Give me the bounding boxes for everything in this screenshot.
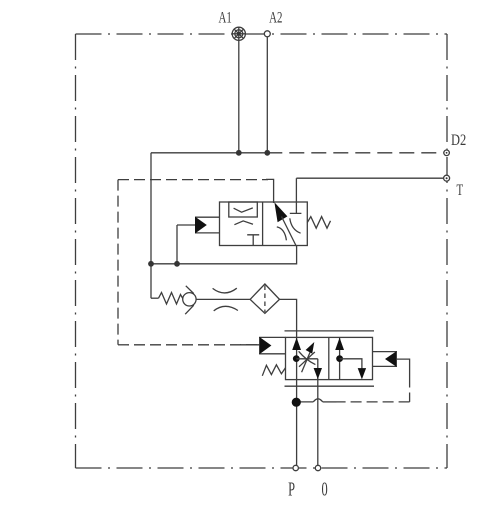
port A1	[232, 27, 245, 40]
label 0	[322, 478, 328, 501]
node junction A2 line	[264, 150, 270, 156]
down path left cell	[317, 359, 319, 468]
port 0	[315, 465, 320, 470]
check ball circle	[183, 293, 196, 306]
wire T line	[296, 177, 444, 179]
pilot arrow right V2	[385, 351, 397, 367]
svg-text:A2: A2	[269, 9, 282, 27]
valve V2 body	[286, 337, 373, 379]
valve V2 top rail	[285, 330, 375, 332]
spring V2 lower-left	[262, 365, 285, 376]
up path right cell	[339, 338, 341, 380]
plug T symbol	[247, 235, 259, 246]
pilot rails left V2	[259, 337, 285, 353]
svg-text:0: 0	[322, 478, 328, 500]
node dot right cell	[336, 355, 343, 362]
wire A2 vertical	[266, 34, 268, 153]
flow curve left	[277, 227, 287, 240]
pilot line left vertical (dashed)	[117, 180, 119, 345]
node big junction	[292, 398, 301, 407]
variable arrowhead	[306, 342, 315, 354]
check rails left	[195, 217, 220, 233]
restrictor arc a	[299, 351, 316, 364]
restrictor cross line	[296, 358, 318, 360]
port T	[444, 175, 450, 181]
node junction main	[148, 261, 154, 267]
variable arrow shaft	[302, 351, 311, 373]
svg-text:A1: A1	[219, 9, 232, 27]
pilot line bottom (dashed)	[118, 344, 259, 346]
filter dashed element	[264, 286, 266, 313]
pilot arrowhead U1	[274, 202, 287, 222]
pilot wire stub	[240, 344, 259, 346]
wire under valve U1	[151, 246, 297, 264]
wire top horizontal to junctions	[151, 152, 267, 154]
elbow right cell	[340, 359, 362, 369]
check valve arrow	[195, 217, 207, 234]
valve V2 divider	[328, 337, 330, 379]
pilot line upper (dashed)	[118, 179, 268, 181]
label A1	[219, 9, 232, 27]
crossover hump	[313, 399, 322, 402]
up arrowhead right cell	[335, 338, 344, 350]
orifice chevron lower	[234, 221, 253, 225]
spring relief	[159, 293, 183, 305]
node junction A1 line	[236, 150, 242, 156]
pilot wire right dashed	[409, 377, 411, 402]
wire A1 vertical	[238, 34, 240, 153]
T-stub in valve	[290, 202, 302, 213]
wire check feed	[177, 225, 195, 264]
down arrowhead right cell	[358, 368, 366, 379]
pilot wire bottom solid	[323, 401, 337, 403]
enclosure border (dash-dot)	[76, 34, 448, 468]
valve V2 bottom rail	[285, 385, 375, 387]
main P line through valve	[296, 337, 298, 468]
node dot left cell	[293, 355, 300, 362]
label A2	[269, 9, 282, 27]
restrictor arc b	[299, 352, 315, 367]
pilot arrow left V2	[259, 337, 271, 355]
label P	[288, 478, 295, 501]
valve U1 inner orifice box	[229, 202, 257, 217]
flow curve right	[290, 218, 301, 233]
pilot wire to node	[296, 401, 313, 403]
filter diamond	[250, 284, 279, 313]
orifice arc top	[213, 288, 237, 293]
up arrow left cell	[292, 338, 301, 350]
seat line lower	[185, 305, 194, 314]
pilot wire right solid	[397, 359, 410, 376]
spring U1 right	[307, 217, 330, 229]
svg-text:P: P	[288, 478, 295, 500]
valve U1 body	[220, 202, 308, 246]
pilot arrow shaft	[282, 217, 297, 247]
wire filter to valve V2	[280, 299, 297, 337]
wire ball to filter	[196, 298, 250, 300]
pilot line to D2 (dashed)	[267, 152, 444, 154]
port D2	[444, 150, 450, 156]
wire to relief spring	[151, 297, 159, 299]
label T	[456, 181, 463, 199]
wire left vertical drop	[150, 153, 152, 298]
pilot rails right V2	[373, 352, 397, 367]
valve U1 divider	[262, 202, 264, 246]
orifice arc bottom	[214, 306, 238, 311]
down arrowhead left cell	[314, 368, 322, 379]
port P	[293, 465, 298, 470]
seat line upper	[186, 286, 194, 294]
port A2	[264, 31, 270, 37]
pilot wire bottom dashed	[337, 401, 410, 403]
svg-text:T: T	[456, 181, 463, 199]
node junction check feed	[174, 261, 180, 267]
wire T line drop into valve	[295, 178, 297, 202]
pilot wire elbow to pilot arrow	[266, 179, 274, 203]
svg-text:D2: D2	[451, 131, 466, 149]
orifice chevron upper	[234, 208, 253, 212]
label D2	[451, 131, 466, 149]
